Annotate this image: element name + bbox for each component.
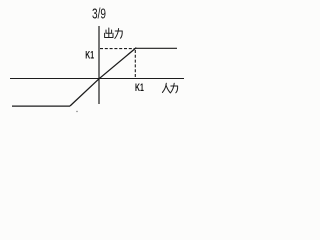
- label 出 (output, first char): [105, 28, 113, 38]
- label 入 (input, first char): [162, 83, 170, 92]
- label 力 (output, second char): [115, 29, 122, 39]
- dashed guide line from saturation corner down to x-axis at K1: [134, 50, 136, 78]
- stray scan speck: [76, 111, 77, 112]
- x-axis: [10, 78, 184, 80]
- transfer curve: linear slope segment: [70, 48, 136, 106]
- svg-text:K1: K1: [135, 82, 144, 94]
- y-axis: [98, 26, 100, 104]
- transfer curve: lower saturation flat: [12, 105, 70, 107]
- dashed guide line from K1 on y-axis to saturation corner: [100, 48, 135, 50]
- svg-text:K1: K1: [85, 50, 94, 62]
- label 力 (input, second char): [170, 83, 177, 93]
- transfer curve: upper saturation flat: [136, 47, 178, 49]
- svg-text:3/9: 3/9: [92, 7, 106, 23]
